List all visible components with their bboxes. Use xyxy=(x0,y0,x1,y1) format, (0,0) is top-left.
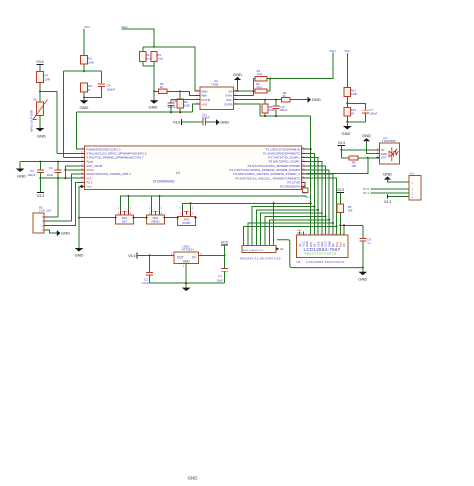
svg-text:INB-: INB- xyxy=(201,94,207,98)
svg-text:1u: 1u xyxy=(367,241,371,245)
ground right of R8 xyxy=(308,97,312,103)
node -VS xyxy=(237,90,239,92)
wire U1 pin row 5 to LCD/header bus xyxy=(305,166,326,217)
wire R1/R2 leads xyxy=(254,78,256,80)
svg-text:100nF: 100nF xyxy=(279,108,287,112)
U1 left pin AVCC xyxy=(81,169,84,171)
U1 left pin P1.0 xyxy=(81,148,84,150)
resistor R9 100K xyxy=(264,100,266,104)
U1 right pin P3.5 xyxy=(302,165,305,167)
svg-text:1: 1 xyxy=(118,207,120,210)
svg-text:GND: GND xyxy=(149,105,158,110)
switch SW2 MENU xyxy=(152,196,160,210)
wire bus column to LCD pin xyxy=(336,226,338,235)
wire bus line B to header pin 8 xyxy=(273,203,275,245)
wire R15 to LCD pin xyxy=(339,213,341,235)
svg-text:H3: H3 xyxy=(280,247,284,251)
svg-text:MH254V-11-08-3764-H19: MH254V-11-08-3764-H19 xyxy=(240,256,280,260)
U1 right pin P3.0 xyxy=(302,185,305,187)
svg-text:GND: GND xyxy=(61,231,70,236)
power flag V3.3 (LDO output) xyxy=(136,252,138,258)
svg-text:P3.0/RXD/INT4: P3.0/RXD/INT4 xyxy=(280,185,300,189)
svg-text:SET: SET xyxy=(122,220,128,224)
wire P1.1 filter column (long vertical) xyxy=(310,116,312,203)
svg-text:10uF: 10uF xyxy=(216,278,223,282)
wire R10 bottom to C8 xyxy=(84,97,102,99)
svg-text:GND: GND xyxy=(383,171,392,176)
svg-text:MCLKO/RST/SS_3/PWM6_2/P5.4: MCLKO/RST/SS_3/PWM6_2/P5.4 xyxy=(86,172,131,176)
svg-text:U1: U1 xyxy=(176,171,180,175)
svg-text:C1: C1 xyxy=(218,274,222,278)
svg-text:GND: GND xyxy=(312,97,321,102)
svg-text:100nF: 100nF xyxy=(369,112,377,116)
wire VCu down xyxy=(346,53,348,88)
capacitor C1 10uF xyxy=(224,255,226,268)
svg-text:10K: 10K xyxy=(351,164,356,168)
svg-text:2.54_1x4: 2.54_1x4 xyxy=(39,209,51,213)
wire TSOP OUT xyxy=(358,157,379,159)
power flag V3.3 (thermistor divider) xyxy=(36,64,43,66)
resistor R15 10K xyxy=(337,204,343,212)
wire H2 pin1 to ground xyxy=(44,230,57,233)
wire bus column to LCD pin xyxy=(321,213,323,235)
svg-text:B5 F1 G2 A3 V8 C5 v8: B5 F1 G2 A3 V8 C5 v8 xyxy=(243,249,264,252)
svg-text:100nF: 100nF xyxy=(107,88,116,92)
svg-text:GND: GND xyxy=(358,276,367,281)
U1 right pin P3.6 xyxy=(302,161,305,163)
wire bus level 4 to header pin xyxy=(265,217,326,246)
svg-text:V3.3: V3.3 xyxy=(338,141,345,145)
svg-text:V3.3: V3.3 xyxy=(37,194,44,198)
svg-text:GND: GND xyxy=(233,72,242,77)
wire LCD ground loop xyxy=(277,240,363,268)
svg-text:TP09: TP09 xyxy=(211,83,219,87)
svg-text:HT7533-1: HT7533-1 xyxy=(182,248,195,252)
svg-text:10uF: 10uF xyxy=(47,173,54,177)
power flag V3.3 (TSOP supply) xyxy=(338,144,345,146)
U1 left pin P1.6 xyxy=(81,152,84,154)
svg-text:1: 1 xyxy=(149,207,151,210)
ground below LDO xyxy=(182,288,191,292)
wire U1 pin row 8 to LCD/header bus xyxy=(305,178,337,226)
wire VCu down to R11 xyxy=(83,29,85,56)
resistor R3 1m xyxy=(151,52,157,62)
wire U1 pin row 2 to LCD/header bus xyxy=(305,153,314,206)
svg-text:STC8H8K64S2: STC8H8K64S2 xyxy=(153,179,175,183)
net port P1.0/P1.1 (TXD/RXD) xyxy=(303,188,309,193)
U1 right pin P3.4 xyxy=(302,169,305,171)
svg-text:AdIn: AdIn xyxy=(329,49,336,53)
U1 right pin P3.7 xyxy=(302,156,305,158)
wire to C7 xyxy=(347,103,365,110)
wire bus column to LCD pin xyxy=(313,207,315,235)
svg-text:INA+: INA+ xyxy=(226,94,233,98)
wire C4 column to H2 pin4 xyxy=(57,178,59,217)
svg-text:Rt: Rt xyxy=(34,98,37,102)
wire U1 pin row 4 to LCD/header bus xyxy=(305,162,322,214)
svg-text:V3.3: V3.3 xyxy=(36,60,43,64)
U1 left pin Agnd xyxy=(81,161,84,163)
wire Agnd rail xyxy=(20,161,81,163)
wire Gnd pin down xyxy=(79,185,83,188)
wire TSOP OUT to MCU xyxy=(306,158,368,174)
svg-text:P1.1: P1.1 xyxy=(363,191,369,195)
svg-text:2: 2 xyxy=(161,207,163,210)
U1 left pin Gnd xyxy=(81,185,84,187)
node bus corner 6 xyxy=(332,222,334,224)
wire bus level 5 to header pin xyxy=(269,220,329,246)
svg-text:XTALI/TXD_3/PWM5_2/PWM4N/ADC7/: XTALI/TXD_3/PWM5_2/PWM4N/ADC7/P1.7 xyxy=(86,156,144,160)
svg-text:100K: 100K xyxy=(351,92,358,96)
wire LDO input xyxy=(199,254,225,256)
svg-text:1: 1 xyxy=(180,207,182,210)
wire VCC rail xyxy=(40,177,81,179)
ground left of C3 xyxy=(19,162,21,169)
svg-text:INA-: INA- xyxy=(226,98,232,102)
U1 left pin P5.4 xyxy=(81,173,84,175)
node VCu divider mid xyxy=(346,102,348,104)
wire rail to op-amp +VS xyxy=(192,104,200,112)
svg-text:VCu: VCu xyxy=(344,49,350,53)
wire R11 junction to C8 xyxy=(84,70,102,72)
svg-text:OUTB: OUTB xyxy=(201,98,210,102)
ground above TSOP GND pin xyxy=(367,141,380,153)
wire MCLKO to H2 pin3 xyxy=(44,174,81,221)
node P1.1 pin to column xyxy=(310,148,312,150)
ground bottom left xyxy=(75,248,84,252)
ground below shunt xyxy=(150,100,159,104)
svg-text:2: 2 xyxy=(192,207,194,210)
wire divider output to MCU P1.7 xyxy=(63,70,84,72)
svg-text:GND: GND xyxy=(80,105,89,110)
wire bus level 3 to header pin xyxy=(261,213,322,246)
node R3 bottom to GND and R6 xyxy=(153,90,155,92)
node bus line B junction xyxy=(310,202,312,204)
svg-text:SW1: SW1 xyxy=(122,216,128,220)
svg-text:GND: GND xyxy=(17,174,26,179)
wire U1 pin row 7 to LCD/header bus xyxy=(305,174,333,223)
capacitor C9 100nF xyxy=(171,99,200,101)
svg-text:100K: 100K xyxy=(87,61,94,65)
wire LCD pin stub 2 xyxy=(302,232,304,236)
ground below C6 xyxy=(362,268,364,272)
svg-text:4: 4 xyxy=(192,213,194,216)
wire switches ground rail xyxy=(79,217,197,219)
power flag V3.3 (LCD contrast) xyxy=(337,191,344,193)
node bus corner 7 xyxy=(336,225,338,227)
switch SW3 START xyxy=(183,203,191,210)
wire R4/R3 bottoms joined xyxy=(142,62,144,66)
svg-text:GND: GND xyxy=(220,120,229,125)
U1 right pin P1.0 xyxy=(302,152,305,154)
svg-text:CS: CS xyxy=(342,243,346,247)
node bus corner 4 xyxy=(325,216,327,218)
svg-text:3: 3 xyxy=(180,213,182,216)
node SW3 top xyxy=(190,202,192,204)
wire AdIn to R4/R3 top xyxy=(121,29,154,47)
svg-text:2: 2 xyxy=(130,207,132,210)
wire AdIn node to op-amp INB+ xyxy=(154,47,200,91)
op-amp U2 TP09 xyxy=(200,87,233,110)
ground right of C11 xyxy=(216,119,220,125)
svg-text:10K: 10K xyxy=(348,209,353,213)
wire R2 left to INA+ xyxy=(238,94,254,96)
svg-text:MF52-103F3950: MF52-103F3950 xyxy=(30,109,34,132)
node bus corner 1 xyxy=(313,206,315,208)
resistor R13 2K xyxy=(346,103,348,107)
wire thermistor node to MCU P1.6 xyxy=(40,91,57,93)
svg-text:10uF: 10uF xyxy=(142,281,149,285)
U1 left pin ADC_VRefP xyxy=(81,165,84,167)
wire V3.3 to TSOP VS xyxy=(341,149,379,151)
resistor R7 10R xyxy=(37,72,44,83)
node R11/R10 junction xyxy=(83,70,85,72)
svg-text:VCu: VCu xyxy=(84,25,90,29)
svg-text:V3.3: V3.3 xyxy=(128,254,135,258)
ground below VCu divider xyxy=(346,122,348,126)
capacitor C8 100nF xyxy=(98,83,105,85)
svg-text:100K: 100K xyxy=(184,104,191,108)
node LDO input xyxy=(224,254,226,256)
svg-text:+VS: +VS xyxy=(201,102,207,106)
node switches ground rail xyxy=(78,217,80,219)
wire LCD backlight to C6 xyxy=(340,224,363,226)
resistor R4 1m xyxy=(142,47,144,52)
wire switch line A to P1.1 xyxy=(129,195,307,197)
svg-text:GND: GND xyxy=(183,259,191,263)
node thermistor junction xyxy=(39,91,41,93)
svg-text:OUTA: OUTA xyxy=(224,102,233,106)
capacitor C2 10uF xyxy=(149,255,151,272)
wire bus level 6 to header pin xyxy=(248,223,333,246)
U1 left pin P1.7 xyxy=(81,156,84,158)
node V3.3 TSOP xyxy=(340,149,342,151)
svg-text:10R: 10R xyxy=(45,78,51,82)
wire bus level 1 to header pin xyxy=(252,207,314,246)
wire LDO ground rail xyxy=(150,282,225,284)
U1 right pin P3.2 xyxy=(302,177,305,179)
wire U1 pin row 6 to LCD/header bus xyxy=(305,170,329,220)
svg-text:V3.3: V3.3 xyxy=(337,188,344,192)
U1 right pin P1.1 xyxy=(302,148,305,150)
power flag V3.3 to H1 pin4 xyxy=(387,195,389,199)
wire R6 to op-amp INB- xyxy=(180,91,200,95)
wire bus level 2 to header pin xyxy=(256,210,318,246)
svg-text:1: 1 xyxy=(183,264,185,268)
svg-text:GND: GND xyxy=(75,253,84,258)
svg-text:V0: V0 xyxy=(298,243,302,247)
LCD module U4 LCD12864-7567 xyxy=(296,235,348,258)
node bus corner 3 xyxy=(321,212,323,214)
U1 right pin P3.3 xyxy=(302,173,305,175)
capacitor C4 10uF xyxy=(57,162,59,170)
svg-text:GND: GND xyxy=(362,133,371,138)
wire switch line B to bus xyxy=(191,202,311,204)
node R1 right xyxy=(269,78,271,80)
svg-text:1m(): 1m() xyxy=(257,72,263,76)
node R4/R3 top junction xyxy=(153,46,155,48)
U3 photodiode symbol xyxy=(389,147,398,161)
svg-text:GND: GND xyxy=(342,131,351,136)
resistor R10 2K xyxy=(81,83,88,92)
svg-text:C9: C9 xyxy=(173,99,177,103)
resistor R11 100K xyxy=(81,56,88,65)
wire -VS to R1/R2 left xyxy=(238,90,254,92)
wire ADC_VRefP / AVCC tie xyxy=(65,166,81,178)
wire long vertical to LCD pin xyxy=(310,203,312,235)
svg-text:C4: C4 xyxy=(49,166,53,170)
switch SW1 SET xyxy=(121,196,129,210)
svg-text:VCC: VCC xyxy=(221,240,229,244)
svg-text:SW2: SW2 xyxy=(153,216,159,220)
wire LCD pin V0 stub xyxy=(299,232,301,236)
resistor R12 100K xyxy=(344,88,350,97)
node SW1 top xyxy=(128,195,130,197)
node bus corner 2 xyxy=(317,209,319,211)
wire bus column to LCD pin xyxy=(325,217,327,236)
thermistor Rt MF52-103F3950 xyxy=(37,102,44,116)
svg-text:MENU: MENU xyxy=(152,220,160,224)
svg-text:2K: 2K xyxy=(87,88,91,92)
node R10 bottom xyxy=(83,97,85,99)
wire bus column to LCD pin xyxy=(317,210,319,235)
U1 right pin P3.1 xyxy=(302,181,305,183)
power flag V3.3 below C3 xyxy=(39,178,41,193)
ground above H1 pin1 xyxy=(388,180,409,183)
capacitor C10 100nF xyxy=(275,100,277,106)
capacitor C6 1uF xyxy=(359,237,366,239)
wire bus level 7 to header pin xyxy=(244,226,337,245)
node LCD ground net xyxy=(362,267,364,269)
svg-text:P1.1: P1.1 xyxy=(305,195,311,199)
svg-text:OUT: OUT xyxy=(381,156,387,160)
svg-text:P1.0: P1.0 xyxy=(302,191,308,195)
wire bus column to LCD pin xyxy=(332,223,334,235)
node R6 right / R5 top xyxy=(179,90,181,92)
wire OUTA to filter rail xyxy=(238,104,260,116)
node TSOP OUT xyxy=(367,157,369,159)
ground below thermistor xyxy=(36,128,45,132)
node bus corner 5 xyxy=(328,219,330,221)
U1 left pin VCC xyxy=(81,177,84,179)
connector H3 MH254V xyxy=(242,246,276,253)
U1 left pin P5.3 xyxy=(81,181,84,183)
svg-text:AB65723G05E38: AB65723G05E38 xyxy=(304,252,336,256)
wire R1/R2 right to AdIn label xyxy=(270,53,333,79)
node SW2 top xyxy=(159,195,161,197)
capacitor C3 100nF xyxy=(39,162,41,170)
svg-text:GND: GND xyxy=(37,134,46,139)
svg-text:100nF: 100nF xyxy=(168,105,176,109)
capacitor C7 100nF xyxy=(362,109,369,111)
wire INA- network rail xyxy=(238,99,281,101)
wire filter rail down to MCU P1.1 column xyxy=(260,115,311,117)
svg-text:V3.3: V3.3 xyxy=(384,200,391,204)
svg-text:U4: U4 xyxy=(297,260,301,264)
svg-text:1m(): 1m() xyxy=(157,56,163,60)
wire LDO GND pin xyxy=(185,263,187,287)
svg-text:START: START xyxy=(182,221,191,225)
node backlight line xyxy=(339,224,341,226)
svg-text:LCD12864-FM12762c6: LCD12864-FM12762c6 xyxy=(306,260,344,264)
svg-text:100nF: 100nF xyxy=(27,173,35,177)
wire P5.3 to H2 pin2 xyxy=(44,182,81,225)
ground below R10 xyxy=(83,98,85,101)
svg-text:V3.3: V3.3 xyxy=(173,121,180,125)
wire analog rail to MCU P1.0 xyxy=(77,111,193,113)
microcontroller U1 STC8H8K64S2 xyxy=(85,146,302,190)
wire U1 pin row 3 to LCD/header bus xyxy=(305,157,318,209)
wire bus column to LCD pin xyxy=(328,220,330,235)
svg-text:SW3: SW3 xyxy=(184,218,190,222)
svg-text:GND: GND xyxy=(188,476,198,481)
ground right of H2 xyxy=(57,230,61,236)
resistor R5 100K xyxy=(179,91,181,99)
resistor R14 10K pullup xyxy=(340,150,342,158)
node LDO output xyxy=(149,254,151,256)
svg-text:TSOP4838: TSOP4838 xyxy=(382,139,396,143)
node VCu divider bottom xyxy=(346,121,348,123)
svg-text:2K: 2K xyxy=(160,85,164,89)
svg-text:Gnd: Gnd xyxy=(86,185,92,189)
ground above op-amp -VS xyxy=(237,80,239,91)
svg-text:2K: 2K xyxy=(351,112,355,116)
